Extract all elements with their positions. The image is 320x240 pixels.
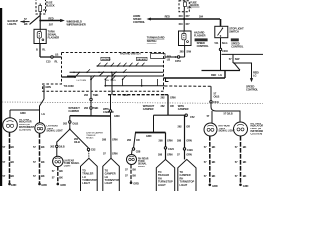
svg-text:CLUSTER): CLUSTER) <box>19 129 31 131</box>
bracket shelf line <box>202 70 241 72</box>
svg-text:GRN: GRN <box>186 153 192 157</box>
svg-text:T/S COM: T/S COM <box>64 84 74 88</box>
brake line hook <box>166 78 169 81</box>
backup lights switch blade <box>30 16 41 25</box>
switch blade mid <box>99 72 104 77</box>
connector C241 <box>210 101 212 103</box>
connector on lamp drop <box>56 145 58 147</box>
svg-text:BK: BK <box>212 160 216 164</box>
svg-text:(USE W/CAMPER: (USE W/CAMPER <box>86 131 103 134</box>
svg-text:BK: BK <box>212 174 216 178</box>
svg-text:T/BK: T/BK <box>93 93 99 97</box>
horn arrow <box>147 18 151 21</box>
with speed control branch line <box>222 53 264 55</box>
ground rh rear <box>130 182 133 185</box>
svg-text:GRN: GRN <box>20 111 26 115</box>
split diagonal to trailer connector <box>70 129 89 148</box>
thick jog to switch feed <box>224 71 226 79</box>
lamp LH rear turn signal <box>53 156 63 166</box>
svg-text:GRD: GRD <box>243 184 249 188</box>
svg-text:LG: LG <box>42 112 45 116</box>
stop light switch box <box>215 26 228 37</box>
svg-text:BK: BK <box>11 174 15 178</box>
svg-text:LIGHT: LIGHT <box>180 183 188 187</box>
backup lights arrowhead <box>21 20 25 23</box>
svg-text:BK: BK <box>243 145 247 149</box>
page left border bar <box>0 8 2 186</box>
svg-text:10A: 10A <box>187 6 192 10</box>
svg-text:BK: BK <box>243 174 247 178</box>
svg-text:OR: OR <box>170 104 174 108</box>
svg-text:O/LB: O/LB <box>74 140 80 144</box>
svg-text:SIGNAL LIGHT: SIGNAL LIGHT <box>47 130 64 133</box>
tag TO TRAILER RH <box>156 159 174 191</box>
wire labels 57 BK <box>33 145 45 178</box>
connector C15 <box>51 56 53 58</box>
svg-text:262: 262 <box>178 124 183 128</box>
connector C <box>69 121 71 123</box>
svg-text:GRN: GRN <box>170 96 176 100</box>
switch blade right <box>112 72 117 77</box>
svg-text:BK: BK <box>24 22 28 26</box>
windshield wiper arrowhead <box>60 19 65 22</box>
brake feed wire into switch <box>164 77 226 79</box>
svg-text:CLUSTER): CLUSTER) <box>251 133 263 135</box>
wire rh rear ground <box>130 165 132 183</box>
svg-text:RL: RL <box>42 48 46 52</box>
svg-text:FLASHER: FLASHER <box>48 36 60 40</box>
svg-text:640: 640 <box>179 14 184 18</box>
svg-text:INDICATOR: INDICATOR <box>251 125 264 128</box>
horn speed control bus <box>150 18 220 20</box>
svg-text:GRD: GRD <box>60 183 66 187</box>
rh bus right drop <box>184 115 186 159</box>
lamp LH turn indicator <box>3 118 18 133</box>
fuse F2 symbol <box>184 1 187 12</box>
svg-text:C15: C15 <box>46 59 51 63</box>
bottom contact dots and blades <box>90 79 113 81</box>
node fuse junction <box>183 18 185 20</box>
svg-text:BK: BK <box>41 160 45 164</box>
turn/hazard switch dashed enclosure <box>43 53 164 92</box>
wire fuse to hazard flasher <box>183 19 185 31</box>
svg-text:T/BK: T/BK <box>93 106 99 110</box>
wire bus corner to stop light switch <box>220 19 222 26</box>
wire stop light switch down <box>220 38 222 71</box>
svg-text:262: 262 <box>84 106 89 110</box>
wire to trailer tag <box>88 151 90 158</box>
lamp RH rear turn signal <box>131 150 134 154</box>
svg-text:RED: RED <box>165 14 170 18</box>
wire rh front drop <box>211 111 213 123</box>
turn switch row bus 3 <box>67 75 164 77</box>
wire to windshield wiper washer <box>40 20 61 22</box>
note text block <box>86 131 103 139</box>
svg-text:GRN: GRN <box>186 139 192 143</box>
svg-text:C52: C52 <box>91 147 96 151</box>
wire from fuse F1 down <box>39 14 41 29</box>
svg-text:15A: 15A <box>43 8 48 12</box>
svg-text:BK: BK <box>59 176 63 180</box>
svg-text:BLOCK: BLOCK <box>46 3 55 7</box>
svg-text:GRN: GRN <box>167 153 173 157</box>
connector C429 <box>183 148 185 150</box>
internal drop wire left exit <box>43 85 45 99</box>
lamp RH turn indicator <box>234 122 248 136</box>
wire labels <box>125 168 136 178</box>
svg-text:C52: C52 <box>123 93 128 97</box>
connector C88 <box>132 148 134 150</box>
tag TO CAMPER RH <box>178 159 196 191</box>
wire label 57 BK <box>52 169 63 180</box>
ground lh ind <box>8 183 11 186</box>
ground rh ind <box>239 184 242 187</box>
tag TO CAMPER LH <box>103 158 120 191</box>
connector pair on wire <box>90 98 92 100</box>
rh rear drop <box>134 133 136 149</box>
turn signal flasher box <box>34 29 46 43</box>
svg-text:BLOCK: BLOCK <box>190 3 199 7</box>
svg-text:O/LB: O/LB <box>72 122 78 126</box>
svg-text:C241: C241 <box>213 100 219 104</box>
svg-text:LIGHT: LIGHT <box>158 183 166 187</box>
hazard flasher box <box>179 31 192 46</box>
wire lh ind drop <box>9 110 11 118</box>
rh bus left drop <box>153 115 155 132</box>
svg-text:GRD: GRD <box>212 184 218 188</box>
hazard flasher element <box>182 31 189 46</box>
svg-text:CONTROL: CONTROL <box>246 88 259 92</box>
wire rh ind ground <box>240 136 242 185</box>
svg-text:298: 298 <box>102 137 107 141</box>
svg-text:INDICATOR: INDICATOR <box>19 121 32 124</box>
speed control branch wire <box>232 54 234 63</box>
wire lh rear ground <box>57 167 59 184</box>
svg-text:LIGHTS: LIGHTS <box>8 22 17 26</box>
svg-text:LB: LB <box>55 52 58 56</box>
corner to rh exit <box>165 94 169 96</box>
lamp LH front turn signal <box>35 123 45 133</box>
wire to backup lights arrow <box>21 21 30 23</box>
RH rear label <box>138 157 149 168</box>
svg-text:LIGHT: LIGHT <box>138 166 145 168</box>
RH front label <box>219 126 236 133</box>
svg-text:CONTROL: CONTROL <box>231 44 244 48</box>
svg-text:GRD: GRD <box>11 183 17 187</box>
wire from flasher down <box>39 44 41 58</box>
stop light switch blade <box>218 28 224 37</box>
speed control arrowhead <box>250 78 253 82</box>
svg-text:S/W: S/W <box>235 57 240 61</box>
exit wire left lights <box>40 99 45 110</box>
svg-text:HAZARD SWITCH: HAZARD SWITCH <box>120 52 141 56</box>
exit wire rh cluster <box>167 95 169 116</box>
speed control elbow wire <box>233 63 252 80</box>
ground lh front <box>38 183 41 186</box>
wire to turn hazard switch <box>40 56 62 58</box>
wire lh front drop <box>39 110 41 123</box>
svg-text:297: 297 <box>49 22 54 26</box>
without speed control label <box>195 38 208 41</box>
svg-text:C210: C210 <box>222 49 228 53</box>
svg-text:S/LG: S/LG <box>222 41 228 45</box>
wire hazard flasher down <box>184 46 186 58</box>
connector on with camper wire <box>109 110 111 112</box>
svg-text:SIGNAL: SIGNAL <box>138 163 147 166</box>
svg-text:RH REAR: RH REAR <box>138 157 149 160</box>
svg-text:R/Y: R/Y <box>186 22 190 26</box>
svg-text:LIGHT: LIGHT <box>64 166 71 168</box>
turn signal flasher element <box>37 29 44 43</box>
node feed <box>74 76 76 78</box>
crease dotted line <box>2 102 263 104</box>
rh camper bus 2 thick <box>135 132 166 134</box>
svg-text:BK: BK <box>41 145 45 149</box>
svg-text:SIGNAL LIGHT: SIGNAL LIGHT <box>219 130 236 133</box>
svg-text:GRN: GRN <box>45 85 51 89</box>
svg-text:CONTROL: CONTROL <box>197 44 210 48</box>
wire with camper tag feed <box>110 116 113 158</box>
svg-text:CONTROL: CONTROL <box>133 20 146 24</box>
svg-text:CAMPER: CAMPER <box>143 107 154 111</box>
svg-text:CAMPER: CAMPER <box>68 109 79 113</box>
svg-text:TURN SIGNAL: TURN SIGNAL <box>64 162 80 165</box>
svg-text:262: 262 <box>84 93 89 97</box>
wire lh front ground <box>39 133 41 183</box>
node junction at wiper feed <box>39 20 41 22</box>
svg-text:GRN: GRN <box>114 114 120 118</box>
wire fuse F2 down <box>183 12 185 19</box>
tag feed trailer rh <box>165 133 167 160</box>
svg-text:262: 262 <box>63 122 68 126</box>
svg-text:LG: LG <box>219 73 222 77</box>
svg-text:CAMPER: CAMPER <box>178 107 189 111</box>
dashed alternate wire <box>165 85 212 87</box>
bus hook up <box>110 112 112 116</box>
wire rh lights horizontal <box>211 103 240 122</box>
thick feed into switch <box>62 76 76 78</box>
svg-text:/TRAILER: /TRAILER <box>86 134 96 137</box>
svg-text:CAMPER: CAMPER <box>103 110 114 114</box>
second row label box <box>137 57 148 60</box>
svg-text:RH TURN: RH TURN <box>106 80 116 82</box>
rh camper bus 1 <box>154 114 185 116</box>
tag TO TRAILER LH <box>81 158 98 191</box>
svg-text:OR: OR <box>136 138 140 142</box>
svg-text:RELAY): RELAY) <box>86 137 94 140</box>
switch blade left <box>75 72 80 77</box>
lamp RH front turn signal <box>204 123 217 136</box>
svg-text:C254: C254 <box>175 59 181 63</box>
connector C52 rh <box>185 114 187 116</box>
lh camper bus <box>70 115 111 117</box>
svg-text:RL: RL <box>55 59 59 63</box>
LH front turn signal label <box>47 126 64 133</box>
ground lh rear <box>57 183 60 186</box>
connector C210 <box>219 48 221 50</box>
svg-text:GRN: GRN <box>167 139 173 143</box>
internal wire row to camper feeds <box>105 85 164 87</box>
svg-text:OR: OR <box>186 124 190 128</box>
svg-text:LH REAR: LH REAR <box>64 160 75 163</box>
fuse block F2 dashed box <box>179 1 189 12</box>
with-camper dashed run <box>108 94 165 96</box>
dropper contacts <box>105 79 157 86</box>
ground rh front <box>209 184 212 187</box>
exit wire with camper <box>110 95 112 110</box>
svg-text:S/W: S/W <box>186 50 191 54</box>
svg-text:511: 511 <box>215 41 220 45</box>
svg-text:298: 298 <box>159 139 164 143</box>
internal drop to exit x112 <box>111 72 113 94</box>
split diagonal to lh rear lamp <box>57 129 70 156</box>
svg-text:262: 262 <box>161 96 166 100</box>
svg-text:298: 298 <box>177 139 182 143</box>
svg-text:B: B <box>36 48 38 52</box>
svg-text:BK: BK <box>41 174 45 178</box>
hazard row contacts <box>97 65 131 67</box>
LH rear label <box>64 160 80 168</box>
connector C52 trailer <box>87 148 89 150</box>
svg-text:GRN: GRN <box>112 137 118 141</box>
lh bus left drop <box>69 116 71 121</box>
svg-text:RED: RED <box>211 73 216 77</box>
svg-text:HAZARD: HAZARD <box>137 58 146 61</box>
svg-text:262: 262 <box>127 138 132 142</box>
exit wire lh rear without camper <box>90 94 92 116</box>
wire hazard flasher to switch <box>165 56 185 58</box>
svg-text:BK: BK <box>212 145 216 149</box>
svg-text:SWITCH: SWITCH <box>229 30 239 34</box>
svg-text:GRN: GRN <box>112 152 118 156</box>
node on hazard wire <box>175 56 177 58</box>
svg-text:298: 298 <box>158 153 163 157</box>
svg-text:GRD: GRD <box>146 134 152 138</box>
svg-text:HAZARD: HAZARD <box>102 58 111 61</box>
svg-text:LIGHT: LIGHT <box>82 181 90 185</box>
svg-text:SWITCH: SWITCH <box>147 39 157 43</box>
svg-text:FLASHER: FLASHER <box>194 34 206 38</box>
wire lh indicator horizontal <box>10 109 40 111</box>
hazard row label box <box>101 57 110 60</box>
svg-text:BK: BK <box>133 168 137 172</box>
connector C254 <box>177 56 179 58</box>
svg-text:BK: BK <box>11 160 15 164</box>
svg-text:LH TURN: LH TURN <box>77 80 87 82</box>
svg-text:LB: LB <box>167 57 170 61</box>
svg-text:C429: C429 <box>187 148 193 152</box>
wire lh ind ground <box>9 132 11 183</box>
fuse block F1 dashed box <box>36 0 46 14</box>
node lh split <box>69 128 71 130</box>
hazard contact row bus <box>97 65 164 67</box>
row 2 contacts <box>73 72 124 74</box>
LH turn indicator label <box>19 119 35 131</box>
svg-text:640: 640 <box>179 22 184 26</box>
wire right indicator drop <box>210 86 212 100</box>
svg-text:O/LB: O/LB <box>214 94 220 98</box>
with speed control label <box>231 38 239 41</box>
svg-text:BK: BK <box>133 173 137 177</box>
diagonal shelf to branch <box>234 63 240 71</box>
svg-text:GRD: GRD <box>41 183 47 187</box>
connector C424 <box>164 147 166 149</box>
fuse F1 symbol <box>39 4 42 14</box>
wire labels 57 BK <box>3 145 15 178</box>
svg-text:BK: BK <box>11 145 15 149</box>
svg-text:262: 262 <box>50 145 55 149</box>
svg-text:265: 265 <box>180 50 185 54</box>
svg-text:BK: BK <box>243 160 247 164</box>
svg-text:BK: BK <box>59 169 63 173</box>
hazard feed landing box <box>151 54 166 59</box>
svg-text:294: 294 <box>199 15 204 19</box>
svg-text:O/LB: O/LB <box>59 145 65 149</box>
svg-text:57 O/LB: 57 O/LB <box>224 111 233 115</box>
wire labels 57 BK <box>235 145 247 178</box>
svg-text:C88: C88 <box>136 150 141 154</box>
svg-text:GRD: GRD <box>133 181 139 185</box>
svg-text:TURN/HAZARD: TURN/HAZARD <box>147 36 165 40</box>
svg-text:C52: C52 <box>190 115 195 119</box>
wire rh front ground <box>209 136 211 185</box>
svg-text:262: 262 <box>161 104 166 108</box>
svg-text:R/Y: R/Y <box>186 14 190 18</box>
svg-text:LG: LG <box>253 74 256 78</box>
svg-text:RED: RED <box>48 16 53 20</box>
RH turn indicator label <box>251 123 267 135</box>
svg-text:WIPER/WASHER: WIPER/WASHER <box>67 22 86 26</box>
svg-text:LIGHT: LIGHT <box>105 181 113 185</box>
turn switch row bus 2 <box>70 71 164 73</box>
svg-text:C424: C424 <box>168 147 174 151</box>
internal drop to exit x91 <box>90 76 92 94</box>
wire labels 57 BK <box>204 145 216 178</box>
